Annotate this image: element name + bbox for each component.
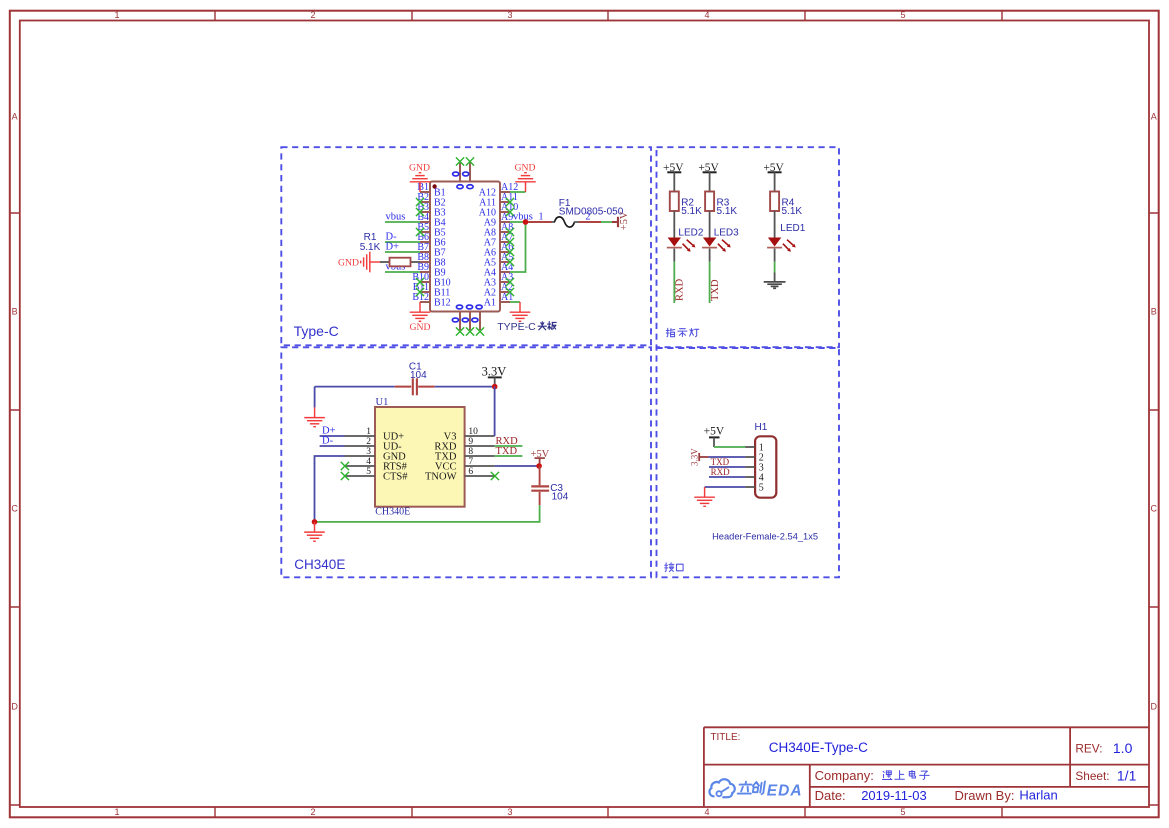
- pin 1 UD+: [345, 435, 376, 437]
- wire C3 to ground rail: [315, 505, 540, 522]
- ground at H1 pin5: [704, 487, 706, 497]
- title block border: [704, 727, 1149, 806]
- connector bottom mounting stubs: [459, 312, 461, 331]
- svg-text:C: C: [1151, 503, 1158, 513]
- wire below LED1: [774, 249, 776, 262]
- svg-text:5: 5: [366, 467, 371, 477]
- pin A12 right stub: [500, 191, 510, 193]
- svg-text:5.1K: 5.1K: [717, 206, 738, 217]
- svg-text:3: 3: [507, 807, 512, 817]
- svg-text:+5V: +5V: [704, 426, 725, 438]
- pin B10 left stub: [420, 281, 430, 283]
- svg-text:D: D: [11, 701, 18, 711]
- pin B1 left stub: [420, 191, 430, 193]
- svg-text:LED2: LED2: [678, 228, 703, 239]
- svg-text:A: A: [1151, 111, 1157, 121]
- resistor R4 5.1K: [770, 192, 779, 212]
- svg-text:REV:: REV:: [1075, 742, 1102, 756]
- svg-text:104: 104: [552, 492, 569, 503]
- svg-text:LED3: LED3: [714, 228, 739, 239]
- svg-text:1: 1: [539, 211, 544, 222]
- pin B9 left stub: [420, 271, 430, 273]
- wire +5V to R2: [673, 172, 675, 191]
- pin A11 right stub: [500, 201, 510, 203]
- svg-text:1: 1: [114, 807, 119, 817]
- svg-text:CTS#: CTS#: [383, 472, 408, 483]
- earth ground at LED1: [764, 281, 786, 283]
- svg-text:9: 9: [468, 437, 473, 447]
- junction dot ground rail: [312, 519, 318, 525]
- svg-text:GND: GND: [409, 163, 430, 174]
- svg-text:CH340E: CH340E: [375, 507, 410, 518]
- svg-text:5: 5: [900, 807, 905, 817]
- pin B7 left stub: [420, 251, 430, 253]
- svg-text:vbus: vbus: [386, 212, 406, 223]
- capacitor C3 104: [539, 466, 541, 485]
- wire pin5 to ground: [705, 486, 746, 488]
- pin 2 H1: [745, 456, 755, 458]
- pin A3 right stub: [500, 281, 510, 283]
- svg-text:3.3V: 3.3V: [482, 364, 507, 378]
- pin B2 left stub: [420, 201, 430, 203]
- svg-text:D+: D+: [386, 242, 400, 253]
- svg-text:5.1K: 5.1K: [360, 242, 381, 253]
- svg-text:D: D: [1151, 701, 1158, 711]
- svg-text:3: 3: [366, 447, 371, 457]
- net label TXD at pin8: [495, 455, 523, 457]
- pin B12 left stub: [420, 301, 430, 303]
- svg-text:2: 2: [310, 10, 315, 20]
- section label 指示灯: [666, 328, 674, 337]
- svg-text:A: A: [12, 111, 18, 121]
- svg-text:H1: H1: [755, 422, 768, 433]
- pin 7 VCC: [465, 465, 495, 467]
- header H1 body: [755, 436, 776, 497]
- svg-text:GND: GND: [338, 257, 359, 268]
- svg-text:TNOW: TNOW: [425, 472, 457, 483]
- wire below LED2: [673, 249, 675, 262]
- ground GND at R1: [370, 261, 380, 263]
- junction dot at A9: [523, 219, 529, 225]
- svg-text:D-: D-: [322, 436, 334, 447]
- svg-text:1: 1: [366, 427, 371, 437]
- pin 3 H1: [745, 466, 755, 468]
- junction dot 3.3V rail: [492, 384, 498, 390]
- wire 3.3V to pin10: [494, 387, 496, 436]
- svg-text:GND: GND: [515, 163, 536, 174]
- logo 立创EDA text: [738, 781, 765, 794]
- net label D- at pin2: [320, 445, 345, 447]
- svg-text:Header-Female-2.54_1x5: Header-Female-2.54_1x5: [712, 532, 818, 542]
- svg-text:2019-11-03: 2019-11-03: [861, 788, 927, 803]
- svg-text:TITLE:: TITLE:: [710, 732, 740, 743]
- wire A9 to A4 loop: [510, 222, 526, 272]
- pin B11 left stub: [420, 291, 430, 293]
- svg-text:8: 8: [468, 447, 473, 457]
- pin A4 right stub: [500, 271, 510, 273]
- pin 10 V3: [465, 435, 495, 437]
- svg-text:10: 10: [468, 427, 478, 437]
- svg-text:7: 7: [468, 457, 473, 467]
- resistor R3 5.1K: [705, 192, 714, 212]
- ground at C1: [314, 407, 316, 417]
- svg-text:C: C: [11, 503, 18, 513]
- svg-text:LED1: LED1: [780, 223, 805, 234]
- wire A1 to ground: [510, 301, 520, 303]
- logo LCEDA cloud: [709, 779, 734, 797]
- IC U1 CH340E body: [375, 407, 465, 507]
- wire R4 to LED1: [774, 211, 776, 238]
- no-connect marks right pins A11 A10 A8 A7 A6 A5 A3 A2: [506, 198, 514, 206]
- svg-text:B12: B12: [412, 292, 429, 303]
- svg-text:B: B: [12, 307, 18, 317]
- pin 8 TXD: [465, 455, 495, 457]
- svg-text:3: 3: [507, 10, 512, 20]
- wire A12 to ground: [510, 191, 526, 193]
- svg-text:B12: B12: [434, 298, 451, 309]
- svg-text:4: 4: [704, 10, 709, 20]
- svg-text:3.3V: 3.3V: [689, 448, 699, 466]
- section box interface: [657, 348, 840, 577]
- wire +5V to R4: [774, 172, 776, 191]
- pin A10 right stub: [500, 211, 510, 213]
- net label vbus at B4: [385, 221, 420, 223]
- connector top mounting stubs: [459, 163, 461, 182]
- svg-text:EDA: EDA: [767, 782, 803, 799]
- svg-text:A1: A1: [484, 298, 496, 309]
- capacitor C1 104: [315, 386, 395, 388]
- ground at pin A1: [519, 302, 521, 312]
- svg-text:GND: GND: [410, 322, 431, 333]
- svg-text:4: 4: [704, 807, 709, 817]
- wire 3.3V to pin2: [709, 456, 746, 458]
- svg-text:5.1K: 5.1K: [681, 206, 702, 217]
- pin A1 right stub: [500, 301, 510, 303]
- connector top pad ovals: [453, 172, 459, 176]
- svg-text:RXD: RXD: [711, 467, 731, 477]
- no-connect marks RTS# CTS# TNOW: [341, 462, 349, 470]
- svg-text:104: 104: [410, 370, 427, 381]
- wire R3 to LED3: [709, 211, 711, 238]
- svg-text:4: 4: [366, 457, 371, 467]
- ground GND at pin A12: [525, 182, 527, 192]
- net label RXD at pin9: [495, 445, 523, 447]
- pin B5 left stub: [420, 231, 430, 233]
- svg-text:TXD: TXD: [710, 279, 721, 301]
- wire GND pin3 to rail: [315, 456, 345, 522]
- pin 2 UD-: [345, 445, 376, 447]
- svg-text:1/1: 1/1: [1117, 768, 1137, 784]
- svg-text:Harlan: Harlan: [1019, 787, 1057, 802]
- svg-text:2: 2: [366, 437, 371, 447]
- section box indicator LEDs: [657, 147, 840, 347]
- pin B3 left stub: [420, 211, 430, 213]
- fuse F1 SMD0805-050: [528, 221, 552, 223]
- resistor R1: [380, 261, 390, 263]
- pin A6 right stub: [500, 251, 510, 253]
- svg-text:Drawn By:: Drawn By:: [955, 788, 1015, 803]
- net label RXD at pin4: [709, 476, 745, 478]
- net label TXD at pin3: [709, 466, 745, 468]
- pin 9 RXD: [465, 445, 495, 447]
- wire +5V to R3: [709, 172, 711, 191]
- svg-text:U1: U1: [376, 397, 389, 408]
- connector bottom pad ovals: [456, 305, 462, 309]
- section label 接口: [665, 563, 674, 572]
- svg-text:Sheet:: Sheet:: [1075, 769, 1109, 783]
- pin B8 left stub: [420, 261, 430, 263]
- no-connect marks left pins B2 B3 B5 B10 B11: [416, 198, 424, 206]
- pin A9 right stub: [500, 221, 510, 223]
- wire R2 to LED2: [673, 211, 675, 238]
- junction dot VCC: [536, 463, 542, 469]
- pin A7 right stub: [500, 241, 510, 243]
- power flag +5V at F1: [612, 221, 618, 223]
- pin 1 H1: [745, 446, 755, 448]
- net label D+ at pin1: [320, 435, 345, 437]
- pin 4 H1: [745, 476, 755, 478]
- svg-text:1.0: 1.0: [1113, 740, 1133, 756]
- svg-text:5.1K: 5.1K: [782, 206, 803, 217]
- svg-text:TYPE-C: TYPE-C: [497, 321, 536, 333]
- connector USB1 Type-C body: [430, 182, 500, 312]
- svg-text:B: B: [1151, 307, 1157, 317]
- svg-text:5: 5: [900, 10, 905, 20]
- net label vbus at B9: [385, 271, 420, 273]
- section box Type-C: [281, 147, 651, 345]
- svg-text:TXD: TXD: [711, 457, 730, 467]
- ground at U1 rail: [314, 522, 316, 532]
- pin A2 right stub: [500, 291, 510, 293]
- svg-text:CH340E: CH340E: [294, 557, 345, 572]
- pin B6 left stub: [420, 241, 430, 243]
- svg-text:1: 1: [114, 10, 119, 20]
- junction dot pin B1 marker: [432, 184, 436, 188]
- wire VCC pin7 to +5V: [495, 465, 539, 467]
- pin B4 left stub: [420, 221, 430, 223]
- pin A5 right stub: [500, 261, 510, 263]
- pin 5 CTS#: [345, 475, 376, 477]
- pin 5 H1: [745, 486, 755, 488]
- svg-text:Company:: Company:: [815, 768, 874, 783]
- net label D- at B6: [385, 241, 420, 243]
- svg-text:Date:: Date:: [815, 788, 846, 803]
- pin 4 RTS#: [345, 465, 376, 467]
- svg-text:CH340E-Type-C: CH340E-Type-C: [769, 740, 868, 755]
- svg-text:2: 2: [310, 807, 315, 817]
- svg-text:SMD0805-050: SMD0805-050: [559, 207, 624, 218]
- ground GND at pin B12: [419, 302, 421, 312]
- svg-text:+5V: +5V: [619, 211, 630, 230]
- wire +5V to pin1: [714, 446, 745, 448]
- resistor R2 5.1K: [670, 192, 679, 212]
- net label D+ at B7: [385, 251, 420, 253]
- svg-text:5: 5: [759, 483, 764, 494]
- svg-text:Type-C: Type-C: [294, 323, 339, 339]
- pin 3 GND: [345, 455, 376, 457]
- section box CH340E: [281, 347, 651, 577]
- svg-text:6: 6: [468, 467, 473, 477]
- pin 6 TNOW: [465, 475, 495, 477]
- svg-text:TXD: TXD: [496, 446, 518, 457]
- wire below LED3: [709, 249, 711, 262]
- net label vbus at A9: [510, 221, 526, 223]
- ground GND at pin B1: [419, 182, 421, 192]
- svg-text:RXD: RXD: [675, 278, 686, 301]
- pin A8 right stub: [500, 231, 510, 233]
